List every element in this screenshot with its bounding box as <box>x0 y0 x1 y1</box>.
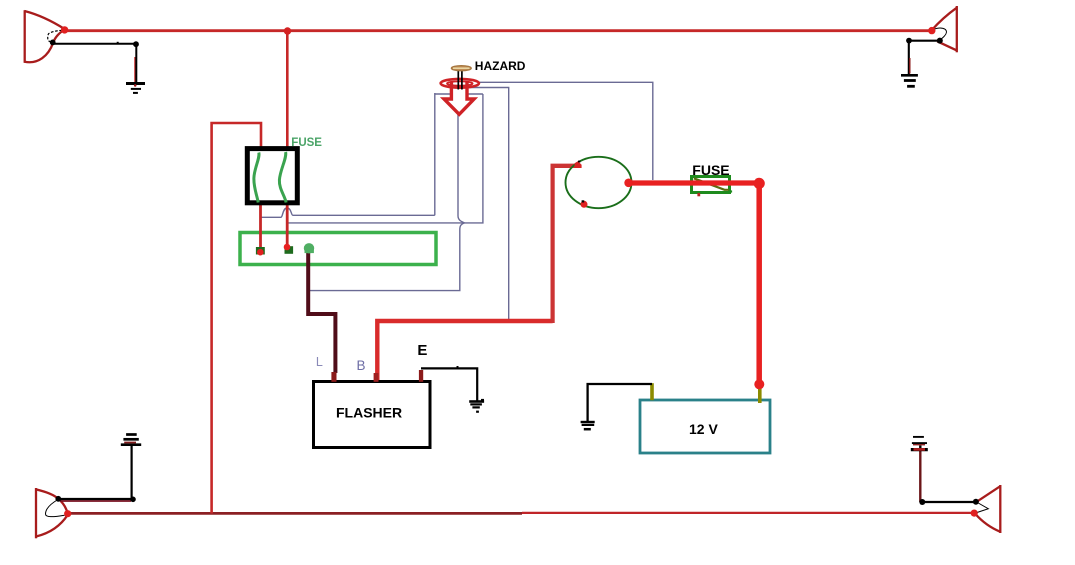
node BR corner dot <box>919 499 925 505</box>
node TL lamp return dot <box>50 40 56 46</box>
wire flasher E to ground <box>421 368 477 400</box>
node BR lamp return dot <box>973 499 979 505</box>
BATTERY BT1 12V box <box>640 400 770 453</box>
wire hazard left vertical <box>434 93 436 215</box>
wire lamp TL to ground <box>53 44 137 84</box>
wire fuse right to junction <box>288 222 465 224</box>
switch lower contact dot <box>581 201 588 208</box>
svg-text:FUSE: FUSE <box>291 137 322 149</box>
LAMP top-right triangle <box>932 6 957 52</box>
node TL apex dot <box>61 26 68 33</box>
ground TR <box>901 75 918 86</box>
wire left rail <box>212 123 261 514</box>
terminal 2 pad <box>285 246 294 254</box>
flasher terminal E <box>419 370 423 382</box>
lamp BR filament <box>976 502 989 513</box>
hazard knob tan ellipse <box>451 66 471 71</box>
wire lamp BR to ground (maroon vertical) <box>919 450 921 502</box>
wire hazard left loop <box>435 93 483 95</box>
node BL corner dot <box>130 497 136 503</box>
wire under BL black (dark red) <box>60 500 131 502</box>
wire strip to flasher L (maroon) <box>308 252 335 373</box>
junction dot at fuse output corner <box>754 178 765 189</box>
hazard red ellipse outer <box>441 79 479 88</box>
node TL corner dot <box>133 41 139 47</box>
wire lamp TR to ground <box>909 41 940 75</box>
svg-text:12 V: 12 V <box>689 421 718 437</box>
LAMP top-left triangle <box>25 10 65 63</box>
flasher terminal B <box>374 373 379 382</box>
hazard pins <box>458 71 462 90</box>
wire thick battery feed: B drop, horizontal, up to switch <box>377 321 552 380</box>
wire top rail drop to fuse <box>286 31 289 150</box>
TURN SWITCH SW1 circle <box>566 157 632 208</box>
node TR apex dot <box>928 27 935 34</box>
wire fuse to strip terminal 1 <box>259 203 262 250</box>
svg-text:HAZARD: HAZARD <box>475 59 526 73</box>
ground battery <box>581 422 595 429</box>
wire to left fuse with hop <box>261 208 435 217</box>
flasher terminal L <box>331 372 336 382</box>
wire lamp BL to ground <box>58 498 133 500</box>
lamp TL filament <box>48 30 62 42</box>
battery negative terminal <box>650 383 654 400</box>
junction dot battery + <box>754 379 764 389</box>
FUSE F1 box <box>247 149 297 203</box>
switch output terminal dot <box>624 179 633 188</box>
LAMP bottom-right triangle <box>975 485 1000 533</box>
ground BL red tinge <box>124 442 136 444</box>
FUSE F2 box <box>692 177 730 193</box>
ground TL <box>126 84 145 93</box>
wire fuse to strip terminal 2 <box>286 203 289 248</box>
LAMP bottom-left triangle <box>36 488 68 538</box>
terminal 3 pad <box>304 243 314 253</box>
SLATE WIRES <box>261 82 653 319</box>
ground BR (inverted, red bottom bar) <box>911 448 928 451</box>
wire thick switch to battery + <box>628 180 759 185</box>
RED THIN WIRES <box>65 31 974 514</box>
wire bottom rail <box>68 512 522 515</box>
wire under top-left ground <box>134 57 136 83</box>
fuse element 1 <box>254 153 259 203</box>
lamp BL filament <box>46 500 65 517</box>
node BL apex dot <box>64 510 71 517</box>
hazard red ellipse inner <box>447 81 473 85</box>
wire hazard pin to right vertical node <box>478 82 653 180</box>
node BR apex dot <box>971 509 978 516</box>
node junction dot top rail <box>284 27 291 34</box>
wire lamp BR horizontal <box>922 501 976 503</box>
svg-text:L: L <box>316 355 323 369</box>
node TR corner dot <box>906 38 912 44</box>
GREEN STRIP connector CN1 <box>240 233 436 265</box>
wire junction down to flasher L node <box>309 223 465 291</box>
wire hazard pin to battery-feed vertical <box>462 88 509 320</box>
fuse F2 element diagonal <box>694 178 729 190</box>
node TR lamp return dot <box>937 38 943 44</box>
wire hazard arrow output vertical <box>458 112 465 223</box>
fuse F2 red tick <box>697 193 700 196</box>
HAZARD switch arrow <box>444 82 474 114</box>
svg-text:E: E <box>417 342 427 359</box>
svg-text:FUSE: FUSE <box>692 162 729 178</box>
ground flasher E <box>469 402 484 412</box>
wire battery negative to ground <box>588 384 652 422</box>
lamp TR filament <box>933 28 946 41</box>
wire top rail <box>65 29 932 32</box>
svg-text:B: B <box>357 358 366 373</box>
svg-text:FLASHER: FLASHER <box>336 405 402 421</box>
node BL lamp return dot <box>55 496 61 502</box>
terminal 1 pad <box>256 247 265 255</box>
switch input terminal square <box>574 161 581 168</box>
fuse element 2 <box>279 152 286 203</box>
wire right loop vertical <box>465 94 483 223</box>
FLASHER U1 box <box>314 382 431 448</box>
ground BL (inverted) <box>121 435 141 445</box>
battery positive terminal <box>758 386 762 403</box>
